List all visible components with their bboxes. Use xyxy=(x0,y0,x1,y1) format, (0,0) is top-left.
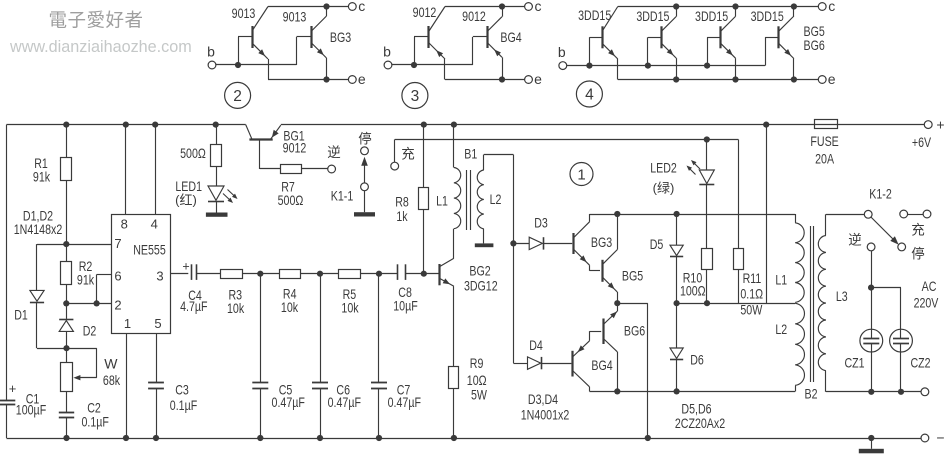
wire B1 L1 top lead xyxy=(453,125,455,168)
sub-circuit 2: emitter wire 1 xyxy=(268,59,270,80)
svg-text:c: c xyxy=(828,0,835,14)
sub-circuit 4: base riser wire 3 xyxy=(707,37,709,65)
sub-circuit 4: base riser wire 4 xyxy=(765,37,767,65)
node D5 top xyxy=(674,211,680,217)
svg-text:50W: 50W xyxy=(740,301,762,317)
svg-text:www.dianziaihaozhe.com: www.dianziaihaozhe.com xyxy=(9,38,192,56)
sub-circuit 4: emitter wire 3 xyxy=(735,58,737,79)
node B1L2-D3-D4 xyxy=(510,240,516,246)
wire R8 top xyxy=(423,125,425,188)
svg-text:D3,D4: D3,D4 xyxy=(528,391,558,407)
svg-text:c: c xyxy=(535,0,542,14)
svg-text:1N4001x2: 1N4001x2 xyxy=(521,407,570,423)
wire pin2 row xyxy=(66,303,111,305)
svg-text:0.1µF: 0.1µF xyxy=(82,413,109,429)
LED LED1 xyxy=(208,186,224,200)
transformer B1 winding L2 xyxy=(477,170,484,229)
resistor R9 xyxy=(449,367,459,389)
svg-text:8: 8 xyxy=(121,217,128,232)
sub-circuit 4: transistor 3DD15 #1 xyxy=(601,26,603,48)
K1-1 wiper arrow xyxy=(364,164,366,183)
LED1 emission arrows xyxy=(223,194,232,202)
sub-circuit 3: collector junction xyxy=(499,3,505,9)
wire BG6 collector down xyxy=(617,352,619,392)
wire D4 cathode xyxy=(542,363,572,365)
svg-text:9012: 9012 xyxy=(462,8,486,24)
sub-circuit 2: emitter junction xyxy=(323,76,329,82)
svg-text:1: 1 xyxy=(577,166,585,183)
wire D1 bottom xyxy=(36,302,38,348)
wire BG1 base down xyxy=(259,140,261,169)
node CZ tie xyxy=(868,285,874,291)
wire pin6 tie riser xyxy=(96,275,98,304)
fuse FUSE 20A xyxy=(815,120,838,129)
svg-text:L3: L3 xyxy=(836,288,848,304)
svg-text:BG6: BG6 xyxy=(624,323,645,339)
node A (R1/R2/D1/pin7) xyxy=(63,241,69,247)
sub-circuit 4: collector wire 3 xyxy=(735,7,737,17)
svg-text:e: e xyxy=(534,71,542,87)
sub-circuit 4: emitter junction xyxy=(673,76,679,82)
sub-circuit 3: base riser wire 1 xyxy=(414,37,416,65)
svg-text:4: 4 xyxy=(585,87,594,104)
svg-text:220V: 220V xyxy=(914,295,939,311)
svg-text:4.7µF: 4.7µF xyxy=(180,298,207,314)
resistor R4 xyxy=(280,270,301,279)
sub-circuit 4: transistor 3DD15 #3 xyxy=(719,26,721,48)
svg-text:BG3: BG3 xyxy=(591,234,612,250)
sub-circuit 4: e terminal xyxy=(818,76,826,84)
wire R2 top xyxy=(66,244,68,261)
sub-circuit 3: transistor 9012 #1 xyxy=(427,26,429,48)
capacitor C2 xyxy=(59,412,74,414)
wire R9 bottom xyxy=(453,389,455,439)
sub-circuit 2: collector junction xyxy=(323,3,329,9)
sub-circuit 4: number circle 4 xyxy=(576,81,602,107)
capacitor C5 xyxy=(260,274,262,383)
sub-circuit 3: base riser wire 2 xyxy=(472,37,474,65)
wire W bottom xyxy=(66,392,68,412)
sub-circuit 4: collector wire 4 xyxy=(793,7,795,17)
transistor BG4 base bar xyxy=(571,351,573,377)
node rail-500 xyxy=(213,122,219,128)
K1-2 contact pair xyxy=(900,210,908,218)
svg-text:10k: 10k xyxy=(341,300,359,316)
wire B2 L3 top lead xyxy=(825,214,827,235)
node BG5 collector rail xyxy=(614,211,620,217)
wire BG6 emitter up xyxy=(617,303,619,311)
wire BG4 emitter to BG6 base xyxy=(589,331,591,341)
sub-circuit 2: emitter rail xyxy=(268,79,348,81)
svg-text:D4: D4 xyxy=(529,337,543,353)
sub-circuit 4: transistor 3DD15 #4 xyxy=(777,26,779,48)
wire R8 bottom xyxy=(423,210,425,274)
svg-text:K1-1: K1-1 xyxy=(331,188,354,204)
wire pin8 riser xyxy=(125,125,127,215)
svg-text:+6V: +6V xyxy=(912,134,932,150)
svg-text:6: 6 xyxy=(114,269,121,284)
svg-text:500Ω: 500Ω xyxy=(180,145,206,161)
svg-text:−: − xyxy=(936,430,944,446)
ground bar bottom right xyxy=(859,449,884,454)
diode D3 xyxy=(529,237,542,249)
sub-circuit 4: emitter wire 4 xyxy=(793,59,795,80)
wire BG2 emitter down xyxy=(453,286,455,366)
+6V terminal xyxy=(924,121,932,129)
sub-circuit 3: number circle 3 xyxy=(402,83,428,109)
wire D1 branch down xyxy=(36,244,38,290)
K1-1 common terminal xyxy=(361,183,369,191)
resistor R5 xyxy=(339,270,361,279)
svg-text:10Ω: 10Ω xyxy=(467,372,487,388)
wiper arrow xyxy=(73,375,80,380)
svg-text:9012: 9012 xyxy=(413,4,437,20)
node rail-R8 xyxy=(421,122,427,128)
node CZ1-line xyxy=(868,389,874,395)
wire BG5 emitter down xyxy=(617,292,619,303)
wire D2 bottom xyxy=(66,331,68,348)
svg-text:1N4148x2: 1N4148x2 xyxy=(14,221,63,237)
resistor R11 xyxy=(734,249,744,270)
sub-circuit 3: b wire xyxy=(392,64,473,66)
svg-text:10k: 10k xyxy=(227,300,245,316)
svg-text:0.47µF: 0.47µF xyxy=(388,394,421,410)
wire pin3 out xyxy=(171,273,189,275)
svg-text:CZ1: CZ1 xyxy=(844,354,864,370)
transformer B2 winding L2 xyxy=(795,303,804,385)
resistor R10 xyxy=(702,249,713,270)
BG4 emitter diagonal (up, pnp) xyxy=(573,341,590,357)
node rail drop xyxy=(763,122,769,128)
node rail-pin8 xyxy=(123,122,129,128)
svg-text:5: 5 xyxy=(154,316,161,331)
node R5-C7 xyxy=(376,271,382,277)
svg-text:電子愛好者: 電子愛好者 xyxy=(48,10,143,31)
sub-circuit 3: emitter rail xyxy=(445,79,525,81)
wire BG3 emitter to BG5 base xyxy=(589,265,591,271)
resistor R3 xyxy=(221,270,243,279)
svg-text:AC: AC xyxy=(922,278,937,294)
wire mid horizontal 140-line xyxy=(395,139,739,141)
node D6 bottom xyxy=(674,388,680,394)
sub-circuit 3: b terminal xyxy=(384,61,392,69)
sub-circuit 2: node b1 xyxy=(235,62,241,68)
socket CZ1 xyxy=(860,329,883,352)
sub-circuit 2: c terminal xyxy=(348,3,356,11)
svg-text:0.47µF: 0.47µF xyxy=(272,394,305,410)
diode D2 xyxy=(59,319,73,321)
wire 500 top xyxy=(216,125,218,145)
svg-text:20A: 20A xyxy=(815,151,834,167)
sub-circuit 2: b terminal xyxy=(208,61,216,69)
svg-text:9013: 9013 xyxy=(232,5,256,21)
svg-text:(红): (红) xyxy=(175,193,197,208)
top +6V rail left segment xyxy=(7,124,246,126)
svg-text:BG2: BG2 xyxy=(469,263,490,279)
svg-text:b: b xyxy=(207,44,215,60)
svg-text:R11: R11 xyxy=(743,270,762,286)
node ground drop xyxy=(645,435,651,441)
svg-text:68k: 68k xyxy=(103,372,121,388)
node C3-rail xyxy=(153,435,159,441)
svg-text:充: 充 xyxy=(911,223,925,238)
svg-text:3: 3 xyxy=(411,88,420,105)
wire K1-1 common down xyxy=(364,191,366,213)
wire R7 to contact xyxy=(301,168,328,170)
wire B2 L1 top lead xyxy=(795,214,797,223)
wire junction down to D4 xyxy=(513,243,515,363)
svg-text:100Ω: 100Ω xyxy=(680,283,706,299)
number circle 1 xyxy=(570,163,593,186)
wire R2 bottom xyxy=(66,285,68,304)
wire output line 303 xyxy=(677,303,796,305)
svg-text:1k: 1k xyxy=(396,208,408,224)
wire D6 top xyxy=(676,303,678,348)
sub-circuit 4: node b3 xyxy=(704,63,710,69)
sub-circuit 3: collector wire 2 xyxy=(502,7,504,17)
svg-text:K1-2: K1-2 xyxy=(869,186,892,202)
wire R4-R5 xyxy=(301,273,339,275)
node 140line-LED2 xyxy=(704,136,710,142)
wire pin5 down xyxy=(156,333,158,382)
svg-text:9013: 9013 xyxy=(283,9,307,25)
sub-circuit 2: collector wire 2 xyxy=(326,7,328,17)
capacitor C1 xyxy=(0,400,15,402)
svg-text:b: b xyxy=(383,44,391,60)
transformer B1 winding L1 xyxy=(454,168,461,229)
wire B2 L3 bottom lead xyxy=(825,371,827,392)
resistor R1 xyxy=(61,158,72,181)
svg-text:B1: B1 xyxy=(464,146,477,162)
svg-text:C3: C3 xyxy=(175,382,189,398)
svg-text:1: 1 xyxy=(124,316,131,331)
sub-circuit 2: emitter wire 2 xyxy=(326,58,328,80)
bottom rail xyxy=(7,438,922,440)
svg-text:10k: 10k xyxy=(281,299,299,315)
wire pin4 riser xyxy=(155,125,157,215)
wire D2 top xyxy=(66,303,68,319)
top +6V rail right segment xyxy=(281,124,925,126)
svg-text:+: + xyxy=(936,116,944,132)
svg-text:R9: R9 xyxy=(470,355,484,371)
wire R1 top xyxy=(66,125,68,158)
svg-text:3: 3 xyxy=(156,269,163,284)
diode D5 xyxy=(670,245,683,255)
wire emitter to ground drop xyxy=(617,303,648,305)
wire BG2 base xyxy=(405,273,439,275)
svg-text:7: 7 xyxy=(114,236,121,251)
resistor R2 xyxy=(61,262,72,285)
wire B1 L1 bottom to BG2 collector xyxy=(453,229,455,259)
wire ground stub xyxy=(871,438,873,449)
socket CZ2 xyxy=(890,329,913,352)
sub-circuit 3: c terminal xyxy=(525,3,533,11)
capacitor C7 xyxy=(378,274,380,383)
svg-text:91k: 91k xyxy=(33,169,51,185)
svg-text:0.47µF: 0.47µF xyxy=(328,394,361,410)
sub-circuit 4: base riser wire 2 xyxy=(647,37,649,65)
node R4-C6 xyxy=(317,271,323,277)
svg-text:0.1µF: 0.1µF xyxy=(170,397,197,413)
sub-circuit 4: base riser wire 1 xyxy=(589,37,591,65)
wiper wire xyxy=(67,348,97,350)
resistor R8 xyxy=(419,188,429,210)
wire pin1 down xyxy=(126,333,128,438)
wire LED2-R10 xyxy=(706,185,708,249)
wire D3 cathode xyxy=(543,243,572,245)
K1-2 wiper arrow xyxy=(871,217,895,241)
svg-text:2CZ20Ax2: 2CZ20Ax2 xyxy=(675,415,725,431)
node R8-C8-BG2base xyxy=(421,271,427,277)
sub-circuit 4: emitter junction xyxy=(732,76,738,82)
transistor BG1 base bar xyxy=(249,138,272,140)
svg-text:BG3: BG3 xyxy=(330,29,351,45)
sub-circuit 4: collector junction xyxy=(673,3,679,9)
svg-text:+: + xyxy=(9,381,17,396)
svg-text:2: 2 xyxy=(233,88,242,105)
wire BG5 collector up xyxy=(617,214,619,250)
svg-text:4: 4 xyxy=(151,217,158,232)
BG6 emitter diagonal (up) xyxy=(603,311,617,324)
svg-text:D3: D3 xyxy=(534,215,548,231)
svg-text:L2: L2 xyxy=(775,321,787,337)
wire D5 top xyxy=(676,214,678,245)
sub-circuit 2: base riser wire 1 xyxy=(238,37,240,65)
LED2 emission arrows xyxy=(693,162,701,170)
diode D4 xyxy=(528,357,541,369)
node rail-R1 xyxy=(63,122,69,128)
wire R3-R4 xyxy=(242,273,279,275)
sub-circuit 4: collector rail xyxy=(618,6,819,8)
wire collector rail 214 xyxy=(590,214,796,216)
node rail-pin4 xyxy=(152,122,158,128)
sub-circuit 4: emitter junction xyxy=(791,76,797,82)
capacitor C4 electrolytic xyxy=(191,264,193,280)
K1-2 contact ni xyxy=(867,243,875,251)
svg-text:91k: 91k xyxy=(77,272,95,288)
svg-text:BG4: BG4 xyxy=(500,29,521,45)
sub-circuit 2: e terminal xyxy=(348,76,356,84)
wire rail drop to output xyxy=(766,125,768,304)
sub-circuit 4: b wire xyxy=(567,65,765,67)
BG1 emitter diagonal xyxy=(271,125,281,139)
svg-text:LED2: LED2 xyxy=(650,160,677,176)
sub-circuit 4: node b1 xyxy=(586,63,592,69)
svg-text:3DG12: 3DG12 xyxy=(464,278,498,294)
K1-2 contact lower xyxy=(898,243,906,251)
svg-text:b: b xyxy=(558,44,566,60)
capacitor C3 xyxy=(148,382,164,384)
K1-2 common terminal xyxy=(864,210,872,218)
svg-text:NE555: NE555 xyxy=(133,242,166,258)
node BG6 collector xyxy=(614,388,620,394)
svg-text:3DD15: 3DD15 xyxy=(695,8,728,24)
sub-circuit 2: b wire xyxy=(216,64,297,66)
wire CZ2 branch xyxy=(871,287,901,289)
svg-text:D6: D6 xyxy=(690,352,704,368)
sub-circuit 3: node b1 xyxy=(411,62,417,68)
sub-circuit 4: b terminal xyxy=(559,62,567,70)
svg-text:W: W xyxy=(104,356,118,372)
sub-circuit 2: collector rail xyxy=(268,6,348,8)
svg-text:3DD15: 3DD15 xyxy=(751,8,784,24)
wire 500-LED1 xyxy=(216,166,218,186)
sub-circuit 4: emitter wire 1 xyxy=(617,59,619,80)
svg-text:c: c xyxy=(358,0,365,14)
svg-text:停: 停 xyxy=(911,246,925,262)
svg-text:逆: 逆 xyxy=(327,145,341,160)
svg-text:B2: B2 xyxy=(805,386,818,402)
node C2-rail xyxy=(63,435,69,441)
sub-circuit 2: transistor 9013 #1 xyxy=(251,26,253,48)
resistor 500ohm xyxy=(211,145,222,167)
svg-text:逆: 逆 xyxy=(848,233,862,248)
diode D1 xyxy=(30,290,44,301)
svg-text:10µF: 10µF xyxy=(393,297,418,313)
wire D6 bottom xyxy=(676,360,678,392)
LED LED2 xyxy=(699,170,714,184)
transformer B2 winding L1 xyxy=(795,223,804,303)
wire LED2 top xyxy=(706,140,708,171)
transformer B2 winding L3 xyxy=(818,236,826,371)
IC U1 NE555 body xyxy=(112,215,171,334)
node R9-rail xyxy=(451,435,457,441)
wire pin7 row xyxy=(37,244,112,246)
sub-circuit 3: emitter wire 2 xyxy=(502,57,504,79)
K1-1 contact ni (reverse) xyxy=(328,165,336,173)
sub-circuit 2: number circle 2 xyxy=(225,82,251,108)
node rail-B1 xyxy=(451,122,457,128)
sub-circuit 4: c terminal xyxy=(818,3,826,11)
AC terminal xyxy=(921,388,929,396)
sub-circuit 4: emitter wire 2 xyxy=(676,58,678,79)
svg-text:(绿): (绿) xyxy=(653,181,675,196)
svg-text:3DD15: 3DD15 xyxy=(636,8,669,24)
transformer B2 core xyxy=(810,226,812,382)
svg-text:BG6: BG6 xyxy=(804,37,825,53)
wire pin6 stub xyxy=(97,274,112,276)
wire charge riser xyxy=(394,140,396,163)
svg-text:e: e xyxy=(358,71,366,87)
node B (R2/D2/pin2) xyxy=(63,300,69,306)
wire C3 bottom xyxy=(156,388,158,438)
sub-circuit 3: collector rail xyxy=(445,6,525,8)
svg-text:3DD15: 3DD15 xyxy=(578,7,611,23)
svg-text:+: + xyxy=(182,260,189,274)
BG4 collector diagonal (down) xyxy=(573,371,590,387)
wire BG3 collector up xyxy=(589,214,591,222)
K1-1 contact ting (stop) xyxy=(361,147,369,155)
left edge wire lower xyxy=(6,405,8,438)
K1-1 contact chong (charge) xyxy=(391,162,399,170)
node CZ2-line xyxy=(898,389,904,395)
sub-circuit 3: emitter wire 1 xyxy=(444,59,446,80)
wire CZ2 bottom xyxy=(900,343,902,391)
ground bar under K1-1 xyxy=(354,212,375,216)
wire BG4 collector down xyxy=(589,387,591,392)
transformer B1 core xyxy=(466,170,468,230)
svg-text:500Ω: 500Ω xyxy=(278,192,304,208)
svg-text:L2: L2 xyxy=(490,191,502,207)
wire ni contact down xyxy=(871,251,873,338)
capacitor C6 xyxy=(320,274,322,383)
node pin2/pin6 tie xyxy=(94,300,100,306)
svg-text:停: 停 xyxy=(358,131,372,147)
wire C4-R3 xyxy=(196,273,220,275)
node rail ground xyxy=(868,435,874,441)
svg-text:D2: D2 xyxy=(83,323,97,339)
svg-text:L1: L1 xyxy=(436,193,448,209)
